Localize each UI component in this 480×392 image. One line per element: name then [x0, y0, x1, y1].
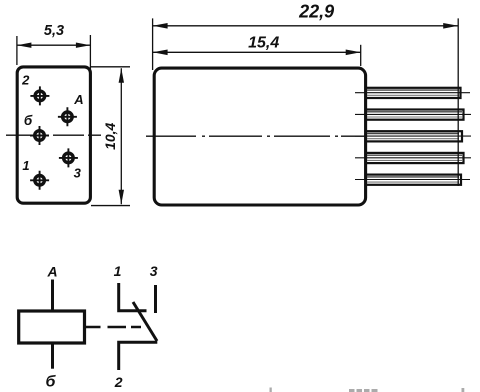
lead 2 center line: [355, 113, 471, 115]
svg-text:б: б: [46, 374, 57, 391]
svg-text:2: 2: [21, 73, 30, 88]
lead 4 streak: [367, 154, 462, 156]
svg-text:б: б: [24, 113, 33, 128]
lead 1 center line: [355, 92, 470, 94]
cropped page text remnants at bottom: [270, 388, 465, 392]
armature link dashed wire: [85, 326, 142, 329]
svg-text:A: A: [73, 92, 83, 107]
contact terminal 2 wire: [117, 342, 157, 370]
svg-text:22,9: 22,9: [298, 2, 334, 22]
svg-text:A: A: [46, 264, 57, 280]
wire lead Б: [51, 343, 54, 369]
dimension 15,4 extension line: [360, 45, 362, 66]
dimension 22,9 extension lines: [153, 18, 459, 186]
pin 1 cross ticks: [30, 171, 49, 190]
pin A circle: [63, 112, 73, 122]
dimension 10,4 arrows: [119, 68, 124, 204]
dimension 5,3 line: [17, 44, 91, 46]
contact terminal 3 wire: [154, 285, 157, 313]
lead 3 streak: [367, 133, 459, 135]
dimension 15,4 line: [153, 51, 361, 53]
dimension 10,4 line: [120, 68, 122, 204]
pin 3 cross ticks: [59, 148, 78, 167]
dimension 5,3 extension lines: [17, 35, 91, 74]
pin 3 circle: [64, 153, 74, 163]
dimension 5,3 arrows: [17, 43, 91, 48]
lead 3 center line: [355, 135, 471, 137]
pin 1 circle: [35, 176, 45, 186]
side view center line: [146, 135, 364, 137]
lead 4: [366, 153, 464, 163]
lead 3: [366, 131, 462, 141]
wire lead A: [51, 280, 54, 312]
dimension 22,9 line: [153, 25, 459, 27]
lead 2: [366, 110, 464, 120]
pin 2 circle: [35, 91, 45, 101]
side view body: [154, 68, 365, 205]
svg-text:1: 1: [114, 263, 122, 279]
contact terminal 1 wire: [117, 283, 146, 311]
movable contact blade: [133, 302, 157, 341]
svg-text:3: 3: [74, 165, 82, 180]
svg-text:5,3: 5,3: [44, 23, 64, 39]
lead 2 streak: [367, 111, 462, 113]
svg-text:2: 2: [114, 374, 123, 390]
coil K1: [19, 311, 85, 343]
pin Б circle: [35, 131, 45, 141]
front view body: [17, 67, 90, 203]
svg-text:15,4: 15,4: [248, 35, 279, 52]
svg-text:1: 1: [22, 158, 29, 173]
lead 5 center line: [355, 179, 470, 181]
pin A cross ticks: [58, 107, 77, 126]
lead 5 streak: [367, 176, 459, 178]
pin 2 cross ticks: [30, 86, 49, 105]
svg-text:3: 3: [150, 263, 158, 279]
lead 5: [366, 175, 461, 185]
lead 1 streak: [367, 89, 459, 91]
front view center line: [6, 134, 101, 136]
dimension 15,4 arrows: [153, 50, 361, 56]
pin Б cross ticks: [30, 126, 49, 145]
lead 4 center line: [355, 157, 471, 159]
svg-text:10,4: 10,4: [102, 122, 118, 149]
lead 1: [366, 88, 461, 98]
dimension 10,4 extension lines: [91, 67, 130, 206]
dimension 22,9 arrows: [153, 23, 459, 29]
